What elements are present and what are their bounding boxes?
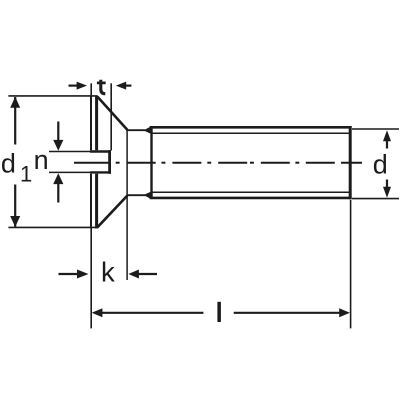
svg-text:1: 1 — [20, 162, 32, 187]
svg-text:n: n — [34, 145, 49, 175]
svg-text:d: d — [373, 150, 388, 180]
svg-text:d: d — [1, 148, 16, 178]
svg-text:k: k — [101, 257, 115, 288]
